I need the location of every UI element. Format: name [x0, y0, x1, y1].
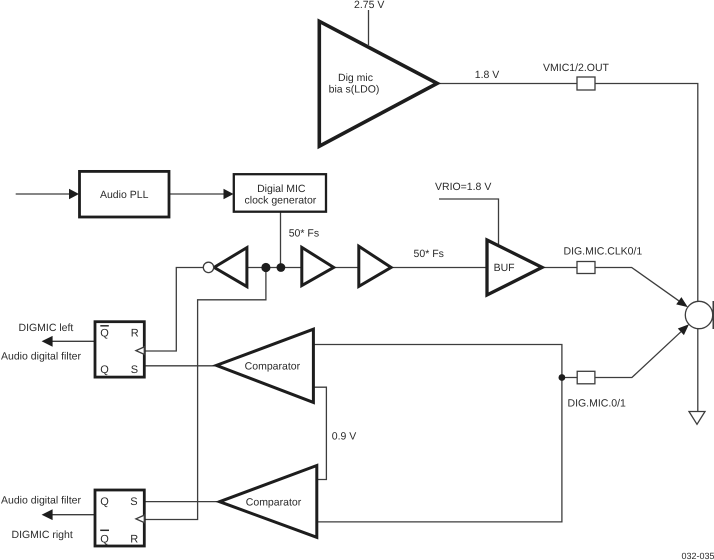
- svg-text:DIGMIC left: DIGMIC left: [19, 322, 74, 334]
- svg-text:Q: Q: [100, 364, 109, 376]
- svg-text:VMIC1/2.OUT: VMIC1/2.OUT: [543, 62, 610, 74]
- svg-text:clock generator: clock generator: [245, 195, 317, 207]
- svg-text:VRIO=1.8 V: VRIO=1.8 V: [435, 181, 491, 193]
- svg-text:Audio digital filter: Audio digital filter: [1, 351, 81, 363]
- svg-text:Q: Q: [100, 327, 109, 339]
- svg-text:DIGMIC right: DIGMIC right: [12, 529, 73, 541]
- svg-text:2.75 V: 2.75 V: [354, 0, 384, 11]
- svg-text:Audio digital filter: Audio digital filter: [1, 494, 81, 506]
- svg-text:Q: Q: [100, 496, 109, 508]
- svg-text:0.9 V: 0.9 V: [332, 430, 357, 442]
- svg-text:DIG.MIC.CLK0/1: DIG.MIC.CLK0/1: [564, 246, 643, 258]
- svg-text:Dig mic: Dig mic: [338, 72, 373, 84]
- svg-text:DIG.MIC.0/1: DIG.MIC.0/1: [568, 397, 627, 409]
- svg-text:BUF: BUF: [494, 262, 515, 274]
- svg-text:Digial MIC: Digial MIC: [257, 183, 306, 195]
- svg-text:Comparator: Comparator: [246, 497, 302, 509]
- svg-text:Audio PLL: Audio PLL: [100, 189, 149, 201]
- svg-text:R: R: [130, 533, 138, 545]
- svg-text:1.8 V: 1.8 V: [475, 69, 500, 81]
- svg-text:Comparator: Comparator: [245, 360, 301, 372]
- svg-text:50* Fs: 50* Fs: [414, 248, 444, 260]
- svg-text:bia s(LDO): bia s(LDO): [329, 84, 380, 96]
- svg-text:S: S: [131, 364, 138, 376]
- svg-text:Q: Q: [100, 533, 109, 545]
- svg-text:50* Fs: 50* Fs: [289, 228, 319, 240]
- svg-text:R: R: [131, 327, 139, 339]
- svg-text:032-035: 032-035: [681, 551, 714, 560]
- svg-text:S: S: [130, 496, 137, 508]
